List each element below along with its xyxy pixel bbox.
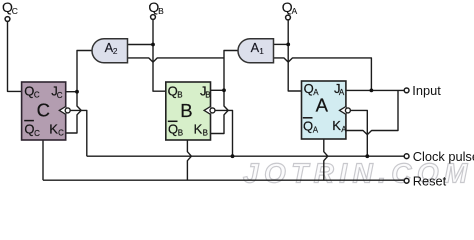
wire J_C-K_C tie with hop over C clock wire [66,92,82,133]
C clock bubble [65,108,70,113]
svg-text:B: B [203,129,208,138]
AND gate A2 [92,39,127,63]
C clock edge triangle [59,107,65,115]
A clock bubble [345,108,350,113]
svg-text:2: 2 [113,46,118,56]
svg-text:A: A [316,95,329,116]
svg-text:Reset: Reset [413,173,447,188]
wire J_A-K_A tie with hop over A clock wire [346,90,398,134]
B clock bubble [210,108,215,113]
wire A2 bottom input from A1 output with hop over Q_B wire [128,58,225,62]
svg-text:A: A [292,6,298,16]
wire B reset pin down to reset bus with hop over clock bus [187,140,191,180]
svg-text:C: C [34,91,40,100]
wire Q_C output: terminal down left side into C box Q_C pin [8,22,22,92]
terminal Input [404,88,409,93]
svg-text:C: C [57,91,63,100]
wire A reset pin down to reset bus with hop over clock bus [324,139,328,181]
svg-text:K: K [49,121,58,136]
junction node J_A / Input [370,89,374,93]
svg-text:C: C [34,129,40,138]
A clock edge triangle [340,107,346,115]
wire C clock from bubble down to clock bus [70,110,87,156]
wire A1 top input from Q_A node [274,43,289,45]
AND gate A1 [238,39,273,63]
svg-text:B: B [177,91,182,100]
svg-text:C: C [12,6,18,16]
svg-text:A: A [341,125,347,134]
terminal Q_B [151,15,156,20]
flip-flop C body [22,82,66,140]
wire J_A line to Input terminal [346,89,404,91]
wire A2 output down to J_C node [77,51,93,92]
wire A2 top input from Q_B node [128,44,154,46]
svg-text:A: A [339,88,345,97]
svg-text:K: K [194,121,203,136]
junction node J_B [222,88,226,92]
junction node J_C [75,90,79,94]
terminal Clock pulse [404,154,409,159]
svg-text:B: B [158,6,164,16]
svg-text:Input: Input [412,83,441,98]
flip-flop A body [302,81,346,139]
svg-text:A: A [313,126,319,135]
wire A clock from bubble down to clock bus [350,110,367,156]
terminal Q_A [286,15,291,20]
svg-text:B: B [178,129,183,138]
svg-text:B: B [180,100,192,121]
wire J_B-K_B tie with hop over B clock wire [211,90,229,133]
wire A1 output down to J_B node [224,51,238,91]
svg-text:Clock pulse: Clock pulse [413,149,474,164]
wire J_B pin to node [211,89,225,91]
wire Q_A output down into A box Q_A pin [288,20,301,91]
svg-text:Q: Q [24,122,34,137]
wire B clock from bubble down to clock bus [215,110,233,156]
svg-text:C: C [58,129,64,138]
svg-text:Q: Q [168,121,178,136]
svg-text:K: K [332,118,341,133]
flip-flop B body [166,82,211,140]
junction node Q_B / A2 input [151,43,155,47]
svg-text:B: B [205,91,210,100]
terminal Q_C [5,17,10,22]
svg-text:C: C [37,100,50,121]
wire J_C pin to node [66,91,77,93]
svg-text:Q: Q [168,83,178,98]
terminal Reset [404,178,409,183]
wire reset bus [43,179,404,181]
svg-text:Q: Q [304,81,314,96]
B clock edge triangle [204,107,210,115]
junction node Q_A / A1 input [286,43,290,47]
svg-text:Q: Q [303,118,313,133]
wire C reset pin down to reset bus [42,140,44,180]
svg-text:1: 1 [259,46,264,56]
svg-text:Q: Q [24,84,34,99]
wire clock bus [87,155,404,157]
junction node B clock on clock bus [231,154,235,158]
wire Q_B output down into B box Q_B pin [153,19,166,91]
junction node A clock on clock bus [365,154,369,158]
wire A1 bottom input from Input line with hop over Q_A wire [274,58,372,91]
